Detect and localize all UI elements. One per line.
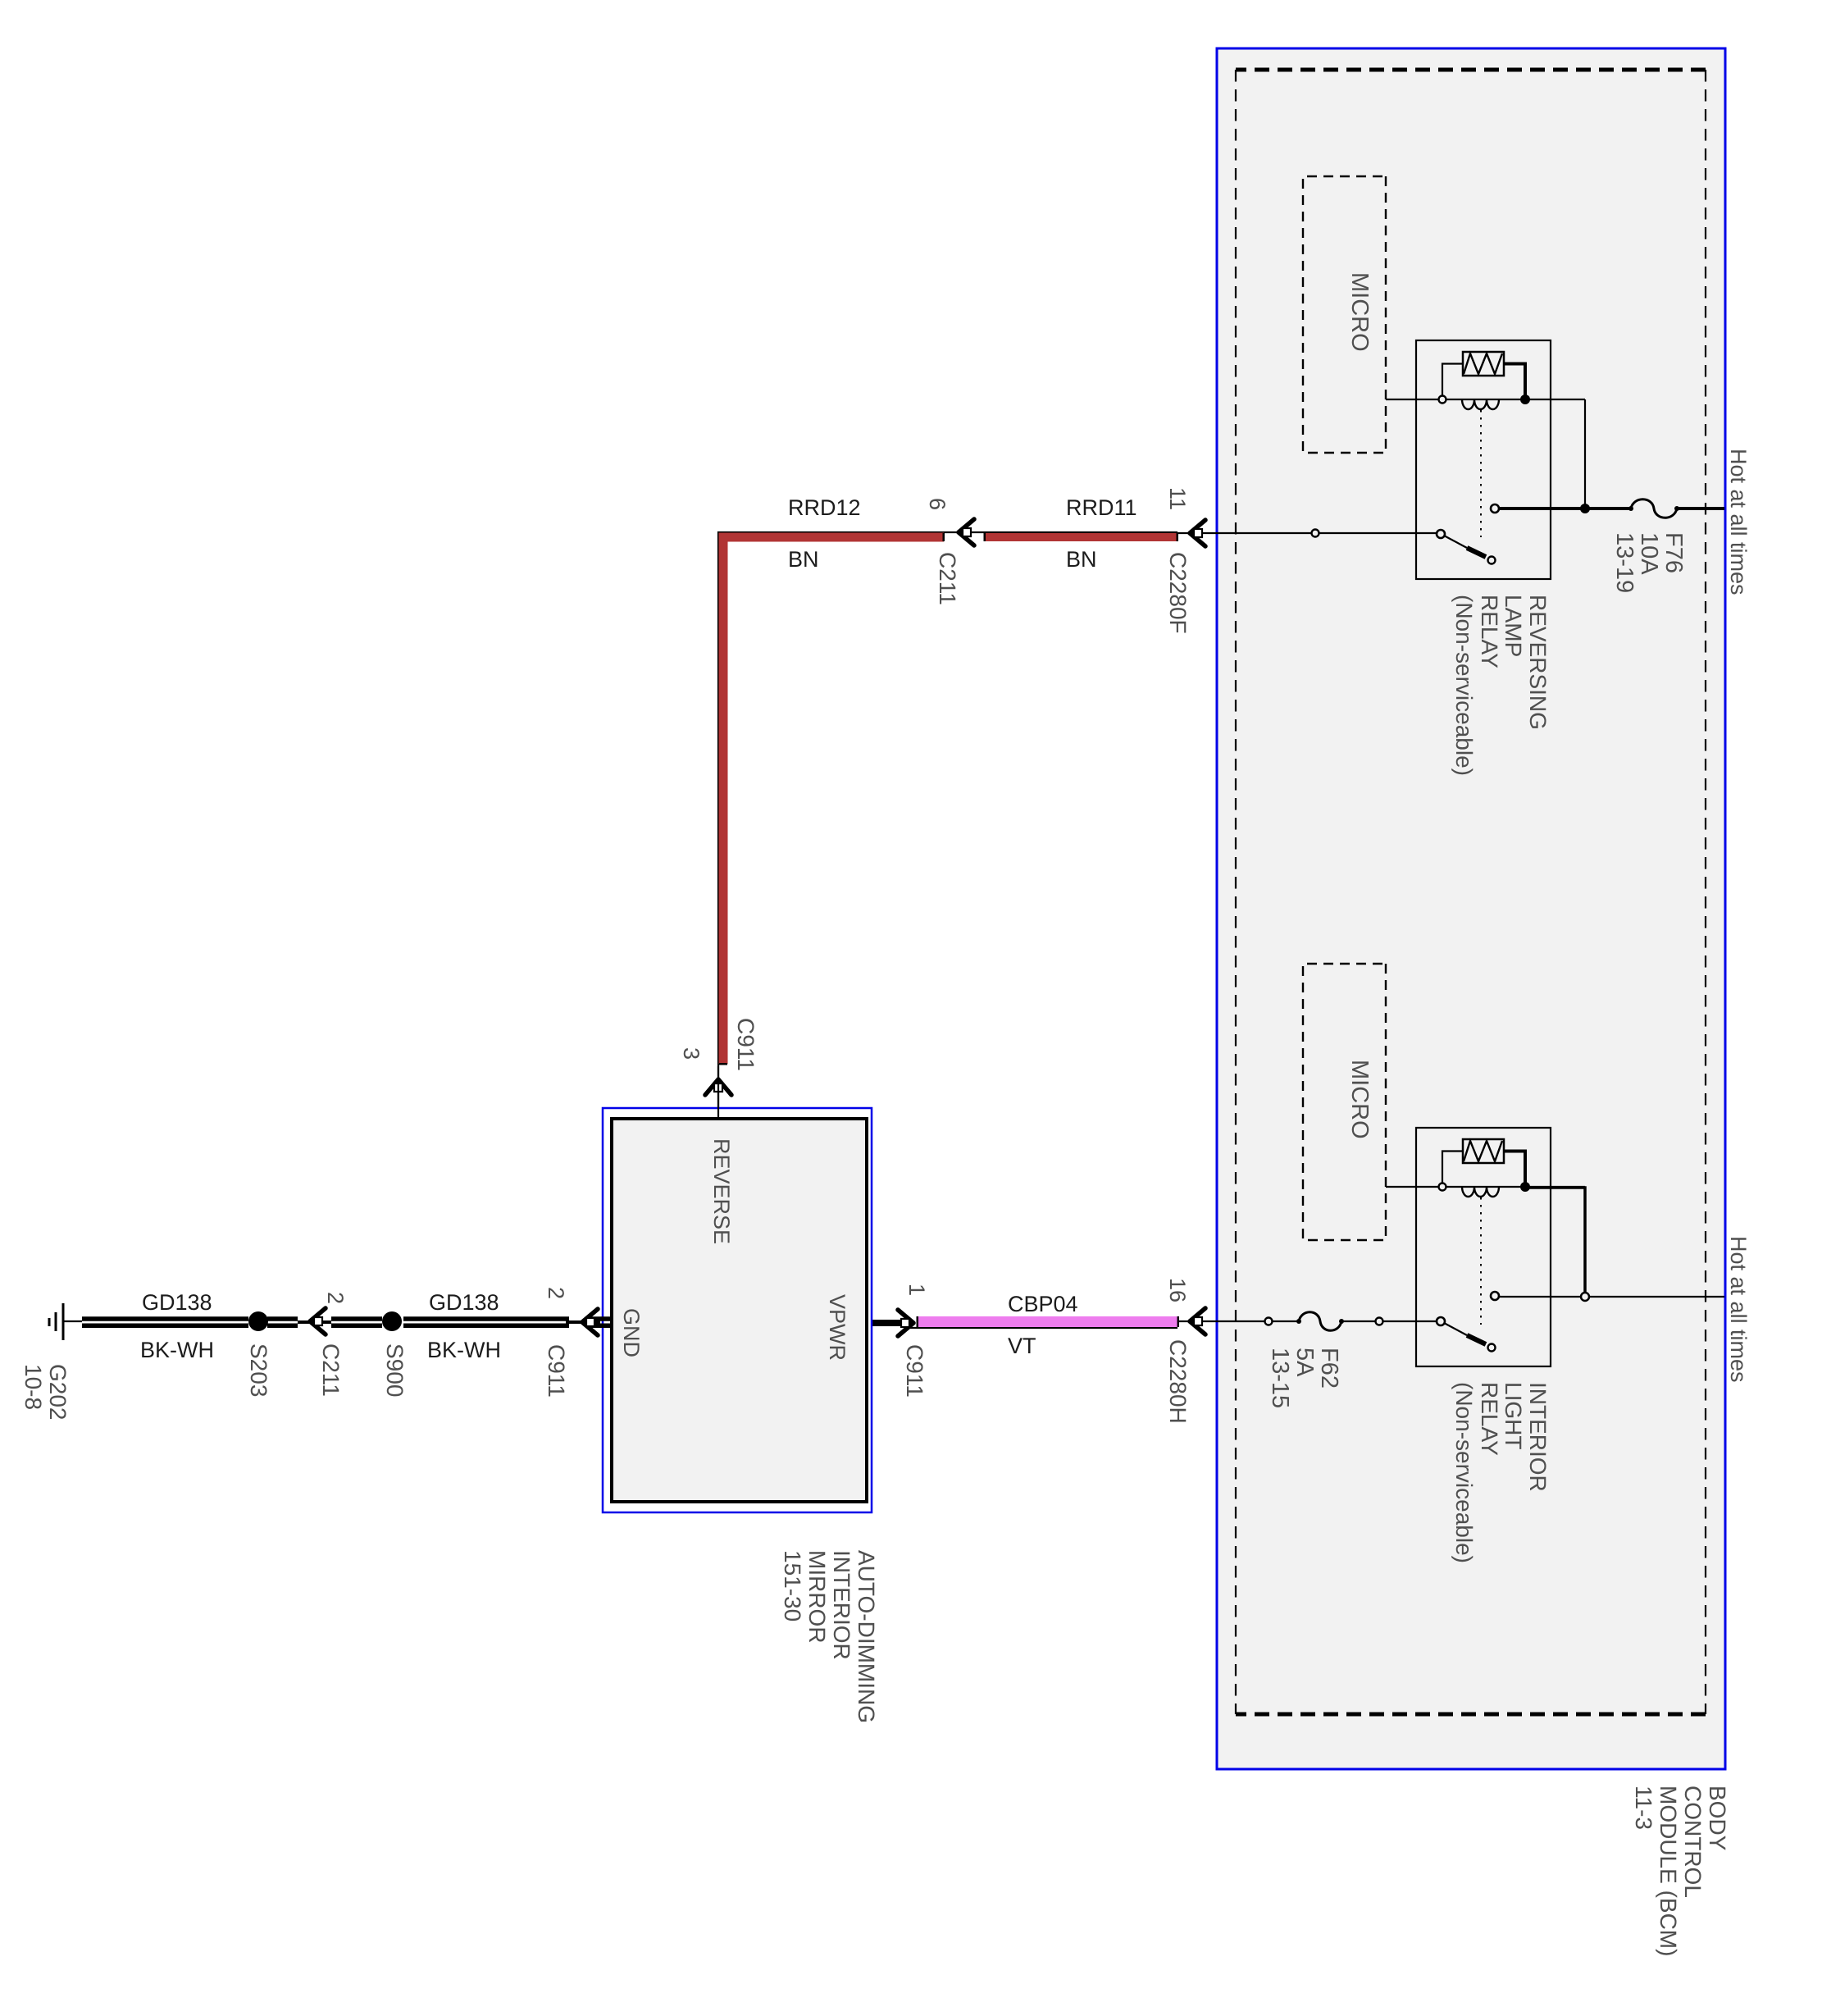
svg-text:GD138: GD138 <box>142 1290 212 1315</box>
wire RRD11 colored band (BN) <box>984 533 1177 541</box>
fuse F76 10A <box>1631 499 1677 518</box>
svg-text:C211: C211 <box>935 552 960 605</box>
wire: relay 1 hot feed (thick) <box>1677 507 1724 510</box>
svg-text:(Non-serviceable): (Non-serviceable) <box>1451 595 1477 776</box>
svg-text:13-19: 13-19 <box>1611 532 1638 593</box>
svg-text:BN: BN <box>1066 547 1097 572</box>
svg-text:1: 1 <box>904 1284 929 1296</box>
relay box (reversing lamp relay) <box>1416 340 1551 579</box>
svg-text:MIRROR: MIRROR <box>804 1550 830 1644</box>
svg-text:C211: C211 <box>318 1343 344 1397</box>
coil junction dot (reversing lamp relay) <box>1520 395 1530 404</box>
svg-text:C2280H: C2280H <box>1165 1339 1191 1424</box>
coil terminal circle (reversing lamp relay) <box>1439 396 1446 404</box>
svg-text:13-15: 13-15 <box>1267 1348 1293 1408</box>
svg-text:10-8: 10-8 <box>20 1364 46 1410</box>
svg-text:6: 6 <box>925 498 950 510</box>
svg-text:2: 2 <box>544 1287 568 1299</box>
wire: relay 2 hot feed <box>1500 1296 1724 1298</box>
inline connector circle below F62 <box>1265 1318 1273 1325</box>
mirror pin REVERSE lead <box>717 1066 719 1119</box>
svg-text:AUTO-DIMMING: AUTO-DIMMING <box>854 1550 879 1723</box>
wire CBP04 black line <box>910 1327 1177 1329</box>
svg-text:CONTROL: CONTROL <box>1680 1786 1706 1898</box>
svg-text:RRD11: RRD11 <box>1066 495 1137 520</box>
connector C211 pin 6 arrow <box>959 519 974 545</box>
wire CBP04 colored band (VT) <box>918 1316 1177 1327</box>
svg-text:3: 3 <box>679 1047 704 1060</box>
wire band segment (C211 to S203) <box>267 1316 298 1321</box>
junction circle relay2 coil feed <box>1581 1293 1589 1301</box>
svg-text:BK-WH: BK-WH <box>427 1338 501 1362</box>
svg-text:S203: S203 <box>246 1343 271 1397</box>
svg-text:C911: C911 <box>902 1344 927 1398</box>
relay armature (interior light relay) <box>1444 1323 1467 1335</box>
resistor stub wires (interior light relay) <box>1504 1152 1525 1188</box>
svg-text:BK-WH: BK-WH <box>140 1338 214 1362</box>
relay output contact (reversing lamp relay) <box>1437 530 1445 538</box>
relay suppression resistor (reversing lamp relay) <box>1463 352 1504 376</box>
wire: relay 2 coil feed branch (thick) <box>1524 1188 1585 1297</box>
svg-text:10A: 10A <box>1636 532 1662 575</box>
svg-text:MICRO: MICRO <box>1346 272 1373 352</box>
relay coil wire (interior light relay) <box>1386 1186 1585 1188</box>
svg-text:REVERSE: REVERSE <box>709 1138 734 1244</box>
svg-text:Hot at all times: Hot at all times <box>1726 449 1751 595</box>
relay actuation dotted line (interior light relay) <box>1480 1197 1482 1325</box>
wire GD138 band segment (mirror to C911) <box>590 1316 610 1321</box>
svg-text:11: 11 <box>1165 487 1190 510</box>
svg-text:BODY: BODY <box>1705 1786 1730 1851</box>
relay output contact (interior light relay) <box>1437 1317 1445 1325</box>
svg-text:LIGHT: LIGHT <box>1501 1382 1526 1449</box>
svg-text:S900: S900 <box>382 1343 408 1397</box>
svg-text:F76: F76 <box>1660 532 1687 573</box>
splice S203 <box>248 1311 268 1331</box>
svg-text:F62: F62 <box>1316 1348 1342 1389</box>
svg-text:LAMP: LAMP <box>1501 595 1526 657</box>
wire RRD11/RRD12 black line <box>718 532 1177 1119</box>
svg-text:151-30: 151-30 <box>780 1550 805 1621</box>
ground symbol G202 <box>63 1320 82 1322</box>
svg-text:GD138: GD138 <box>429 1290 499 1315</box>
wire band segment (S900 to C211) <box>331 1316 382 1321</box>
svg-text:MODULE (BCM): MODULE (BCM) <box>1656 1786 1681 1956</box>
svg-text:16: 16 <box>1165 1278 1190 1302</box>
svg-text:RRD12: RRD12 <box>788 495 861 520</box>
relay actuation dotted line (reversing lamp relay) <box>1480 410 1482 537</box>
coil junction dot (interior light relay) <box>1520 1182 1530 1192</box>
connector C211 pin 2 arrow <box>310 1308 326 1334</box>
mirror pin 1 stub <box>866 1320 906 1326</box>
mirror pin 1 connector arrow C911 <box>898 1310 913 1336</box>
relay common contact (interior light relay) <box>1491 1292 1499 1300</box>
mirror pin 2 connector arrow C911 <box>582 1309 598 1335</box>
wire: relay 1 coil feed branch <box>1584 399 1586 509</box>
BCM pin 16 connector arrow C2280H <box>1176 1320 1217 1322</box>
svg-text:MICRO: MICRO <box>1346 1060 1373 1139</box>
svg-text:CBP04: CBP04 <box>1008 1292 1078 1316</box>
relay coil (reversing lamp relay) <box>1462 399 1499 409</box>
wire RRD12 colored band (BN) <box>723 537 944 1064</box>
svg-text:INTERIOR: INTERIOR <box>829 1550 854 1660</box>
svg-text:GND: GND <box>619 1308 644 1357</box>
MICRO dashed box 1 <box>1303 176 1386 453</box>
relay armature (reversing lamp relay) <box>1444 536 1467 548</box>
svg-text:INTERIOR: INTERIOR <box>1525 1382 1551 1492</box>
svg-text:11-3: 11-3 <box>1631 1786 1656 1830</box>
relay common contact (reversing lamp relay) <box>1491 504 1499 513</box>
svg-text:C2280F: C2280F <box>1165 552 1191 634</box>
wire: relay1 output to pin 11 <box>1217 532 1436 534</box>
wire band segment (S203 to ground) <box>82 1316 248 1321</box>
BCM module box <box>1217 48 1725 1769</box>
svg-text:C911: C911 <box>733 1018 758 1071</box>
junction dot relay1 coil feed <box>1580 504 1590 513</box>
splice S900 <box>382 1311 402 1331</box>
fuse F62 5A <box>1299 1312 1341 1331</box>
svg-text:BN: BN <box>788 547 819 572</box>
svg-text:RELAY: RELAY <box>1477 595 1502 668</box>
coil terminal circle (interior light relay) <box>1439 1184 1446 1191</box>
svg-text:Hot at all times: Hot at all times <box>1726 1236 1751 1383</box>
MICRO dashed box 2 <box>1303 964 1386 1240</box>
svg-text:RELAY: RELAY <box>1477 1382 1502 1456</box>
relay coil wire (reversing lamp relay) <box>1386 399 1585 400</box>
svg-text:2: 2 <box>323 1292 348 1304</box>
relay box (interior light relay) <box>1416 1128 1551 1366</box>
wire: relay2 output to pin 16 <box>1341 1320 1436 1322</box>
BCM inner dashed border <box>1236 68 1706 72</box>
relay coil (interior light relay) <box>1462 1187 1499 1197</box>
svg-text:5A: 5A <box>1291 1348 1318 1377</box>
svg-text:REVERSING: REVERSING <box>1525 595 1551 730</box>
mirror inner box <box>612 1119 867 1502</box>
svg-text:VPWR: VPWR <box>825 1294 850 1361</box>
svg-text:G202: G202 <box>45 1364 71 1421</box>
mirror pin 3 connector arrow C911 <box>705 1079 731 1095</box>
relay suppression resistor (interior light relay) <box>1463 1139 1504 1163</box>
auto-dimming interior mirror outer blue box <box>603 1108 872 1512</box>
BCM pin 11 connector arrow C2280F <box>1177 532 1217 534</box>
svg-text:(Non-serviceable): (Non-serviceable) <box>1451 1382 1477 1563</box>
resistor stub wires (reversing lamp relay) <box>1504 364 1525 400</box>
svg-text:C911: C911 <box>544 1344 569 1398</box>
wire GD138 band segment (C911 to S900) <box>403 1316 569 1321</box>
inline connector circle on relay1 output <box>1312 530 1319 537</box>
svg-text:VT: VT <box>1008 1334 1036 1358</box>
inline connector circle above F62 <box>1376 1318 1383 1325</box>
